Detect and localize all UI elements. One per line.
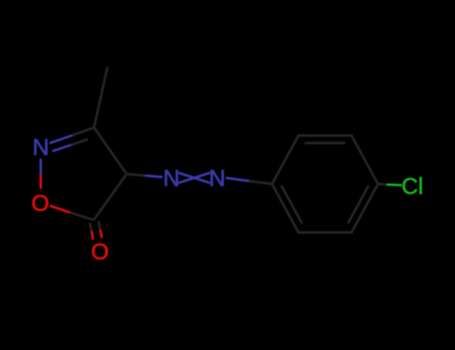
bond N2=C3 main line blue half <box>50 135 75 144</box>
bond C4'-Cl green half <box>387 183 402 186</box>
bond C5-O1 gray half <box>70 213 94 221</box>
bond N2=C3 inner line gray half <box>71 139 88 145</box>
bond N2=C3 main line gray half <box>72 128 94 136</box>
svg-text:N: N <box>32 134 49 160</box>
bond N2-O1 (isoxazole ring, red half) <box>40 174 42 188</box>
bond C4'-Cl gray half <box>378 183 387 186</box>
benzene ring outline C1'-C2'-C3'-C4'-C5'-C6' <box>272 136 378 233</box>
bond N2=C3 inner line blue half <box>52 144 73 151</box>
benzene inner line C6'-C1' (lower left) <box>281 186 302 224</box>
bond C3-CH3 (methyl) <box>94 67 108 128</box>
bond N2-C1' blue half <box>226 178 249 181</box>
svg-text:N: N <box>163 165 180 191</box>
bond C5-O1 red half <box>50 206 70 213</box>
bond C3-C4 <box>94 128 127 175</box>
bond N2-C1' gray half <box>249 181 272 184</box>
bond C5=O carbonyl right line red half <box>100 230 102 239</box>
svg-text:Cl: Cl <box>402 173 424 199</box>
svg-text:N: N <box>209 165 226 191</box>
bond C4-N1 azo attach blue half <box>145 176 163 178</box>
bond C5=O carbonyl right line gray half <box>99 221 101 229</box>
bond C5=O carbonyl left line red half <box>92 231 94 240</box>
bond C4-N1 azo attach gray half <box>127 174 145 176</box>
svg-text:O: O <box>91 239 109 265</box>
bond N2-O1 (isoxazole ring, blue half) <box>40 159 42 175</box>
benzene inner line C2'-C3' (top) <box>305 142 346 144</box>
benzene inner line C4'-C5' (lower right) <box>348 186 369 224</box>
svg-text:O: O <box>31 190 49 216</box>
bond N1=N2 azo crossed line B <box>178 173 210 183</box>
bond N1=N2 azo crossed line A <box>178 173 210 183</box>
bond C5=O carbonyl left line gray half <box>90 223 92 231</box>
bond C4-C5 <box>94 174 127 220</box>
